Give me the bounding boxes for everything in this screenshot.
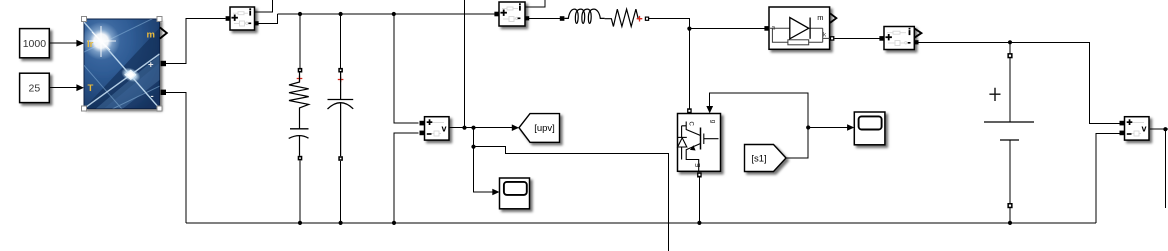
PV - port xyxy=(161,90,166,95)
IGBT emitter arrow xyxy=(690,145,696,150)
I3 i output chevron xyxy=(915,29,922,38)
junction node bus VM1 xyxy=(392,221,396,225)
junction node VM1 v 1 xyxy=(462,126,466,130)
parallel RC branch bottom port xyxy=(298,156,303,161)
wire diode cathode to I3 + input xyxy=(834,37,879,39)
wire top bus xyxy=(277,13,494,15)
wire battery plate lead upper xyxy=(1009,58,1011,122)
wire From s1 to gate node xyxy=(710,93,809,158)
junction node top bus C branch xyxy=(339,12,343,16)
series RL branch input port xyxy=(560,16,565,21)
junction node A diode-IGBT xyxy=(687,27,691,31)
Goto tag upv xyxy=(519,114,560,143)
svg-text:Ir: Ir xyxy=(87,39,94,50)
arrowhead into Scope1 xyxy=(492,189,499,196)
svg-text:[s1]: [s1] xyxy=(751,154,766,165)
junction node VM1 v 2 xyxy=(471,126,475,130)
wire RC branch bottom to bus xyxy=(299,160,301,223)
wire I1 - output up to top bus xyxy=(258,14,277,23)
diode antiparallel triangle xyxy=(678,138,687,147)
diode internal cathode drop xyxy=(823,28,830,42)
PV array block xyxy=(63,0,172,124)
I3 - output port xyxy=(914,40,918,44)
wire C branch bottom to bus xyxy=(340,161,342,223)
wire VM2 v output to right edge xyxy=(1150,128,1168,130)
resistor R load xyxy=(289,73,309,129)
junction node VM1 v 3 xyxy=(471,145,475,149)
arrowhead into PV Ir xyxy=(76,40,84,47)
wire RL branch output to node A xyxy=(649,19,690,29)
battery negative plate xyxy=(1000,139,1019,141)
wire vertical crossing from VM1 v node to top edge xyxy=(464,0,466,128)
svg-text:g: g xyxy=(710,120,716,123)
diode cathode port xyxy=(830,36,835,41)
capacitor C load arc plate xyxy=(289,136,309,139)
wire VM1 v output to Goto upv xyxy=(449,127,513,129)
Scope1 xyxy=(500,178,530,209)
junction node bus battery xyxy=(1008,221,1012,225)
diode triangle xyxy=(790,18,809,39)
I1 + input port xyxy=(226,16,231,21)
svg-text:E: E xyxy=(696,163,702,167)
current measurement I2 xyxy=(494,2,529,26)
wire IGBT emitter to bottom bus xyxy=(698,177,700,223)
svg-text:1000: 1000 xyxy=(23,38,47,50)
wire VM2 - input to bottom bus xyxy=(1096,133,1120,223)
polarity marker red plus RC branch xyxy=(297,76,303,82)
junction node battery top xyxy=(1008,40,1012,44)
svg-text:+: + xyxy=(148,60,154,71)
IGBT gate bar xyxy=(703,134,705,145)
capacitor branch top port xyxy=(338,68,343,73)
wire PV + output to I1 + input xyxy=(166,19,226,64)
I2 + input port xyxy=(494,12,499,17)
wire I2 i output up off canvas xyxy=(525,0,545,7)
VM2 + input port xyxy=(1120,121,1125,126)
selection handle bottom-right xyxy=(157,106,162,111)
diode internal anode line xyxy=(769,27,823,29)
capacitor C2 arc plate xyxy=(328,103,354,109)
capacitor C load plate xyxy=(290,128,309,130)
I2 - output port xyxy=(525,16,529,20)
selection handle bottom-left xyxy=(82,106,87,111)
constant block 25 xyxy=(20,73,50,102)
diode cathode bar xyxy=(809,18,811,39)
wire constant25 to PV T xyxy=(49,87,77,89)
IGBT gate lead xyxy=(704,138,719,140)
wire VM1 - to bottom bus xyxy=(394,133,419,223)
wire top bus to RC branch xyxy=(299,14,301,68)
constant block 1000 xyxy=(20,29,50,58)
voltage measurement VM1 xyxy=(420,117,450,140)
From tag s1 xyxy=(745,145,787,172)
junction node top bus VM1 xyxy=(392,12,396,16)
svg-text:m: m xyxy=(147,30,155,41)
diode antiparallel bar xyxy=(678,136,687,138)
IGBT collector port xyxy=(687,108,692,113)
current measurement I1 xyxy=(226,7,259,30)
wire I2 - output to inductor branch xyxy=(529,17,560,19)
svg-text:v: v xyxy=(1142,124,1147,134)
capacitor C2 plate xyxy=(328,99,354,101)
wire VM2 v branch down right edge xyxy=(1164,129,1166,208)
junction node bus IGBT emitter xyxy=(697,221,701,225)
IGBT block xyxy=(678,108,721,177)
battery bottom port xyxy=(1007,203,1012,208)
parallel RC branch top port xyxy=(298,68,303,73)
wire node A to diode anode xyxy=(689,28,764,30)
resistor R series xyxy=(605,9,640,26)
polarity marker red plus C branch xyxy=(338,77,344,83)
wire battery plate lead lower xyxy=(1009,140,1011,203)
svg-text:[upv]: [upv] xyxy=(534,123,555,134)
capacitor C load lead xyxy=(299,136,301,156)
capacitor branch bottom port xyxy=(338,156,343,161)
capacitor C2 lead bottom xyxy=(340,103,342,156)
VM2 - input port xyxy=(1120,131,1125,136)
Scope2 xyxy=(854,112,885,145)
battery positive plate xyxy=(984,121,1034,123)
wire I1 i output up off canvas xyxy=(255,0,273,12)
junction node bus C branch xyxy=(339,221,343,225)
svg-text:T: T xyxy=(88,83,94,94)
wire I3 - output to right corner and VM2 + input xyxy=(918,42,1119,123)
selection handle top-right xyxy=(157,17,162,22)
diode snubber path xyxy=(772,28,822,42)
junction node VM2 v xyxy=(1163,127,1167,131)
diode antiparallel lead xyxy=(682,126,687,160)
svg-text:25: 25 xyxy=(29,83,41,95)
wire PV - output down to bottom bus xyxy=(166,92,186,223)
IGBT channel bar xyxy=(700,128,702,150)
current measurement I3 xyxy=(879,27,921,50)
battery top port xyxy=(1007,53,1012,58)
wire constant1000 to PV Ir xyxy=(49,42,77,44)
battery plus sign xyxy=(989,88,1000,101)
diode block D1 xyxy=(764,7,836,49)
wire battery bottom to bus xyxy=(1009,208,1011,223)
svg-text:-: - xyxy=(151,91,154,102)
arrowhead into PV T xyxy=(76,84,84,91)
series RL branch output port xyxy=(645,17,649,21)
wire node A down to IGBT collector xyxy=(688,29,690,109)
VM1 - input port xyxy=(420,131,425,136)
IGBT emitter port xyxy=(697,172,702,177)
PV + port xyxy=(161,61,166,66)
junction node bus R branch xyxy=(298,221,302,225)
svg-text:v: v xyxy=(442,124,447,134)
diode snubber resistor xyxy=(788,40,809,45)
wire gate node to Scope2 xyxy=(808,127,848,129)
wire top bus to VM1 + input xyxy=(394,14,419,123)
wire bottom bus xyxy=(186,222,1096,224)
wire battery top lead xyxy=(1009,42,1011,53)
svg-text:a: a xyxy=(772,24,776,31)
IGBT emitter path xyxy=(686,144,700,172)
voltage measurement VM2 xyxy=(1120,117,1150,140)
svg-text:C: C xyxy=(688,122,694,127)
capacitor C2 lead top xyxy=(340,73,342,100)
svg-text:m: m xyxy=(817,13,823,22)
I3 + input port xyxy=(879,36,884,41)
I1 - output port xyxy=(254,21,258,25)
VM1 + input port xyxy=(420,121,425,126)
diode m output chevron xyxy=(830,13,836,23)
inductor L xyxy=(564,9,604,23)
wire VM1 v node down xyxy=(473,128,475,147)
PV m output chevron xyxy=(160,27,167,38)
selection handle top-left xyxy=(82,17,87,22)
arrowhead into IGBT gate xyxy=(706,106,713,113)
wire top bus to C branch xyxy=(340,14,342,68)
arrowhead into Goto upv xyxy=(512,124,519,131)
arrowhead into Scope2 xyxy=(847,124,854,131)
diode anode port xyxy=(764,26,769,31)
IGBT collector path xyxy=(686,122,700,136)
junction node top bus R branch xyxy=(298,12,302,16)
junction node gate-scope2 xyxy=(806,125,810,129)
wire v node to Scope1 xyxy=(474,147,494,192)
wire v node to lower net exiting bottom xyxy=(474,147,669,251)
polarity marker red plus RL xyxy=(637,16,643,22)
